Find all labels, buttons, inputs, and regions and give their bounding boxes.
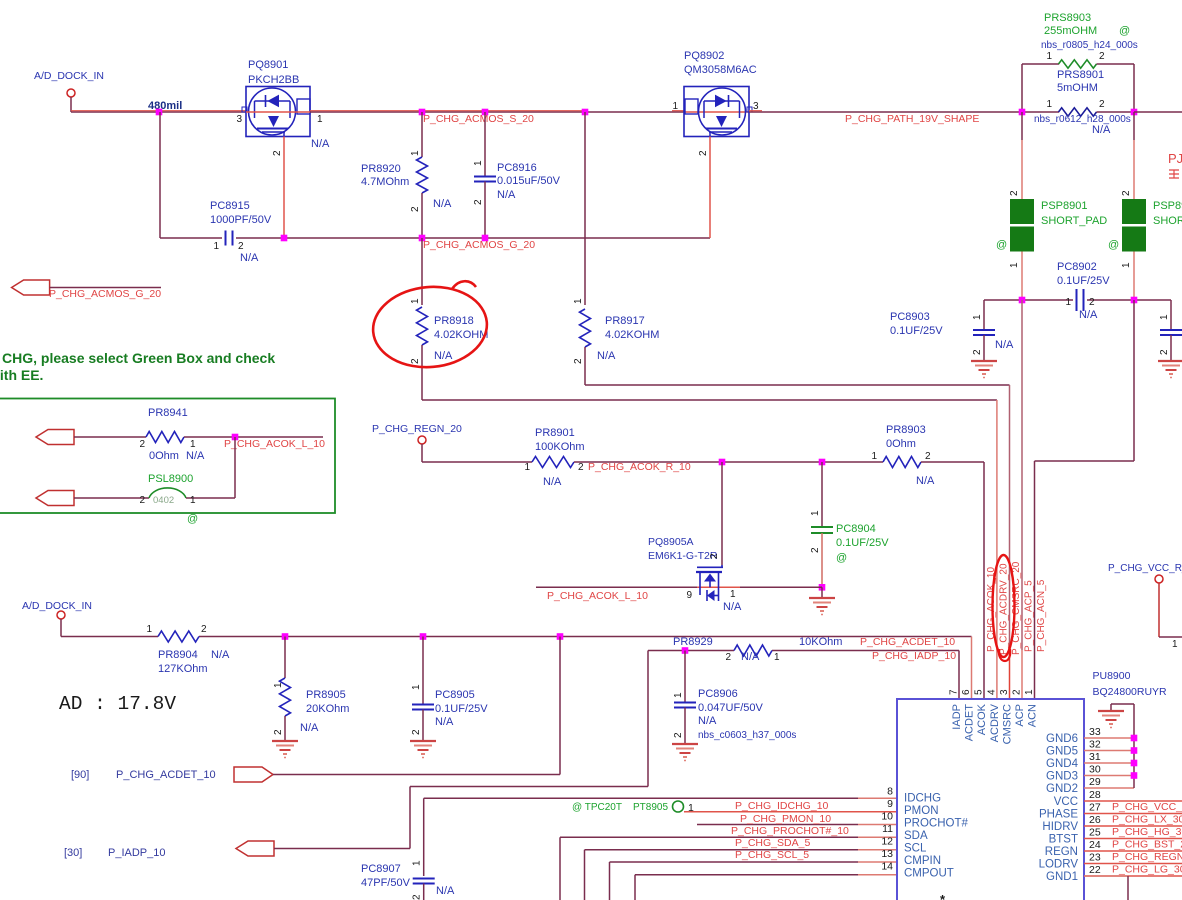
svg-text:IADP: IADP [951, 704, 963, 730]
svg-text:VCC: VCC [1054, 796, 1078, 808]
svg-text:2: 2 [1121, 190, 1132, 196]
resistor PR8904 127KOhm [146, 624, 230, 675]
wire pin14 CMPOUT row [635, 875, 897, 900]
svg-text:PRS8903: PRS8903 [1044, 12, 1091, 24]
resistor PRS8903 255mOHM (green, parallel) [1022, 12, 1138, 112]
svg-text:AD : 17.8V: AD : 17.8V [59, 693, 176, 715]
label P_CHG_ACOK_10 (rotated) [986, 567, 997, 652]
node junction rail x=485 [482, 109, 489, 116]
annotation red circle around PR8918 [370, 281, 491, 372]
node junction GND4 [1131, 760, 1138, 767]
wire GND1 tail [1084, 876, 1128, 900]
wire PSP8901 column lower [1021, 252, 1023, 301]
svg-text:1: 1 [730, 589, 736, 600]
svg-text:A/D_DOCK_IN: A/D_DOCK_IN [22, 600, 92, 612]
svg-text:P_CHG_PROCHOT#_10: P_CHG_PROCHOT#_10 [731, 825, 849, 837]
svg-text:P_CHG_ACMOS_G_20: P_CHG_ACMOS_G_20 [49, 288, 161, 300]
node P_CHG_REGN_20 terminal [372, 423, 462, 444]
node junction PC8902 row x=1134 [1131, 297, 1138, 304]
label P_CHG_ACP_5 (rotated) [1024, 580, 1035, 652]
svg-text:P_CHG_ACP_5: P_CHG_ACP_5 [1024, 580, 1035, 652]
svg-text:BTST: BTST [1049, 834, 1078, 846]
resistor PR8941 0Ohm [74, 407, 325, 462]
svg-text:P_CHG_REGN_: P_CHG_REGN_ [1112, 851, 1182, 863]
capacitor PC8903 0.1UF/25V [890, 300, 1014, 361]
svg-text:[30]: [30] [64, 847, 82, 859]
svg-text:2: 2 [1012, 689, 1023, 695]
svg-text:4: 4 [986, 689, 997, 695]
svg-text:PRS8901: PRS8901 [1057, 69, 1104, 81]
svg-text:PC8905: PC8905 [435, 689, 475, 701]
off-page connector ACDET (right arrow) [234, 767, 273, 782]
svg-text:PQ8905A: PQ8905A [648, 536, 694, 548]
svg-text:P_IADP_10: P_IADP_10 [108, 847, 165, 859]
svg-text:QM3058M6AC: QM3058M6AC [684, 64, 757, 76]
ground PC8903 [971, 361, 997, 378]
off-page connector IADP (left arrow) [236, 841, 274, 856]
wire chip right pin P_CHG_LX_30 [1084, 814, 1182, 827]
svg-text:480mil: 480mil [148, 100, 182, 112]
svg-text:1: 1 [1009, 262, 1020, 268]
wire pin8 IDCHG row [424, 797, 897, 799]
node junction GND5 [1131, 747, 1138, 754]
svg-text:N/A: N/A [186, 450, 205, 462]
label P_CHG_ACOK_L_10 (row) [547, 590, 648, 602]
off-page connector (PSL8900 input) [36, 491, 74, 506]
wire chip right pin P_CHG_LG_30 [1084, 864, 1182, 877]
label chip left pin numbers and names [881, 786, 968, 880]
label P_CHG_PROCHOT#_10 [731, 825, 849, 837]
svg-text:1: 1 [190, 439, 196, 450]
svg-text:PHASE: PHASE [1039, 809, 1078, 821]
svg-text:N/A: N/A [916, 475, 935, 487]
svg-text:PC8907: PC8907 [361, 863, 401, 875]
svg-text:6: 6 [961, 689, 972, 695]
svg-text:10KOhm: 10KOhm [799, 636, 842, 648]
note asterisk mark [940, 892, 946, 900]
wire PC8902 row [984, 300, 1171, 329]
svg-text:HIDRV: HIDRV [1042, 821, 1078, 833]
op-amp U1 : IC PU8900 BQ24800RUYR outline [897, 670, 1167, 900]
label P_CHG_ACOK_R_10 [588, 461, 691, 473]
svg-text:nbs_r0612_h28_000s: nbs_r0612_h28_000s [1034, 114, 1131, 125]
wire ACN column from PC8902 row down [1035, 300, 1135, 699]
svg-text:2: 2 [412, 894, 423, 900]
svg-text:33: 33 [1089, 726, 1101, 738]
wire PSP8902 column upper [1133, 112, 1135, 199]
wire top rail mid segment [310, 111, 684, 112]
svg-text:PR8920: PR8920 [361, 163, 401, 175]
svg-text:3: 3 [236, 114, 242, 125]
svg-text:PMON: PMON [904, 805, 939, 817]
svg-text:2: 2 [725, 652, 731, 663]
component PSP8901 SHORT_PAD [996, 190, 1107, 268]
transistor PQ8901 PKCH2BB [236, 59, 330, 156]
svg-text:2: 2 [810, 547, 821, 553]
svg-text:ACDRV: ACDRV [989, 703, 1001, 742]
wire PR8941 net to PSL8900 [234, 437, 236, 498]
wire rail to right edge [1134, 111, 1182, 113]
svg-text:5mOHM: 5mOHM [1057, 82, 1098, 94]
svg-text:N/A: N/A [1079, 309, 1098, 321]
svg-text:2: 2 [473, 199, 484, 205]
svg-text:PQ8902: PQ8902 [684, 50, 724, 62]
wire GND pins 33-29 to ground rail [1084, 704, 1134, 788]
note green instruction text [0, 350, 275, 383]
svg-text:0.1UF/25V: 0.1UF/25V [890, 325, 943, 337]
svg-text:1: 1 [1159, 314, 1170, 320]
svg-text:1: 1 [213, 241, 219, 252]
svg-text:GND3: GND3 [1046, 771, 1078, 783]
wire through PQ8902 [684, 111, 749, 113]
svg-text:PSP8901: PSP8901 [1041, 200, 1087, 212]
svg-text:1: 1 [1046, 99, 1052, 110]
resistor PR8905 20KOhm [273, 637, 349, 742]
wire PR8917 to CMSRC pin3 [585, 385, 1010, 699]
resistor PR8918 4.02KOHM [410, 238, 488, 400]
transistor PQ8902 QM3058M6AC [672, 50, 759, 156]
svg-text:PC8916: PC8916 [497, 162, 537, 174]
wire pin10 PROCHOT row [697, 824, 897, 826]
svg-text:2: 2 [1099, 99, 1105, 110]
svg-text:1: 1 [190, 495, 196, 506]
svg-text:PJ: PJ [1168, 151, 1182, 166]
ground PR8905 [272, 741, 298, 758]
svg-text:2: 2 [1009, 190, 1020, 196]
svg-text:PC8904: PC8904 [836, 523, 876, 535]
wire IADP branch [274, 651, 648, 849]
svg-text:P_CHG_ACOK_L_10: P_CHG_ACOK_L_10 [547, 590, 648, 602]
green option box [0, 399, 335, 514]
node junction G rail x=485 [482, 235, 489, 242]
wire G rail P_CHG_ACMOS_G_20 [160, 237, 710, 239]
svg-text:1: 1 [810, 510, 821, 516]
svg-text:P_CHG_ACDET_10: P_CHG_ACDET_10 [860, 636, 955, 648]
svg-text:PC8903: PC8903 [890, 311, 930, 323]
svg-text:2: 2 [1089, 297, 1095, 308]
svg-text:N/A: N/A [597, 350, 616, 362]
svg-text:@: @ [1119, 25, 1130, 37]
transistor PQ8905A EM6K1-G-T2R [648, 536, 742, 613]
svg-text:@: @ [996, 239, 1007, 251]
svg-text:P_CHG_IADP_10: P_CHG_IADP_10 [872, 650, 956, 662]
wire through PQ8901 [246, 111, 310, 113]
node junction rail x=422 [419, 109, 426, 116]
svg-text:4.02KOHM: 4.02KOHM [605, 329, 659, 341]
svg-text:GND2: GND2 [1046, 783, 1078, 795]
label P_CHG_ACMOS_S_20 [423, 113, 534, 125]
svg-text:P_CHG_ACDET_10: P_CHG_ACDET_10 [116, 769, 216, 781]
svg-text:N/A: N/A [543, 476, 562, 488]
svg-text:0Ohm: 0Ohm [149, 450, 179, 462]
svg-text:1: 1 [1172, 639, 1178, 650]
svg-text:P_CHG_ACMOS_S_20: P_CHG_ACMOS_S_20 [423, 113, 534, 125]
svg-text:1: 1 [672, 101, 678, 112]
label chip top pin numbers [949, 689, 1036, 695]
svg-text:@ TPC20T: @ TPC20T [572, 802, 622, 813]
svg-text:1: 1 [410, 298, 421, 304]
svg-text:2: 2 [139, 439, 145, 450]
svg-text:2: 2 [272, 150, 283, 156]
svg-text:29: 29 [1089, 776, 1101, 788]
svg-text:28: 28 [1089, 789, 1101, 801]
wire chip right pin P_CHG_HG_30 [1084, 826, 1182, 839]
svg-text:1: 1 [317, 114, 323, 125]
svg-text:PC8902: PC8902 [1057, 261, 1097, 273]
wire chip right pin P_CHG_BST_2 [1084, 839, 1182, 852]
svg-text:ACN: ACN [1027, 704, 1039, 727]
svg-text:22: 22 [1089, 864, 1101, 876]
svg-text:CMSRC: CMSRC [1002, 704, 1014, 744]
svg-text:P_CHG_ACN_5: P_CHG_ACN_5 [1036, 579, 1047, 652]
svg-text:0402: 0402 [153, 495, 174, 506]
capacitor PC8916 0.015uF/50V [473, 112, 561, 238]
svg-text:PU8900: PU8900 [1093, 670, 1131, 682]
wire PQ8905A gate drop [721, 462, 723, 565]
svg-text:P_CHG_ACDRV_20: P_CHG_ACDRV_20 [999, 563, 1010, 655]
svg-text:CMPIN: CMPIN [904, 855, 941, 867]
svg-text:PR8941: PR8941 [148, 407, 188, 419]
svg-text:SHORT_PAD: SHORT_PAD [1153, 215, 1182, 227]
off-page connector P_CHG_ACMOS_G_20 [12, 280, 162, 300]
svg-text:2: 2 [972, 349, 983, 355]
svg-text:P_CHG_LG_30: P_CHG_LG_30 [1112, 864, 1182, 876]
svg-text:0.1UF/25V: 0.1UF/25V [1057, 275, 1110, 287]
svg-text:20KOhm: 20KOhm [306, 703, 349, 715]
label P_CHG_ACDET_10 (net) [860, 636, 955, 648]
svg-text:2: 2 [709, 553, 720, 559]
resistor PR8903 0Ohm [871, 424, 984, 487]
svg-text:14: 14 [881, 861, 893, 873]
label PJ note (clipped chinese) [1168, 151, 1182, 178]
svg-text:2: 2 [573, 358, 584, 364]
svg-text:P_CHG_ACMOS_G_20: P_CHG_ACMOS_G_20 [423, 239, 535, 251]
svg-text:9: 9 [887, 798, 893, 810]
svg-text:ACP: ACP [1014, 704, 1026, 727]
wire pin11 SDA row [560, 837, 897, 900]
port [90] P_CHG_ACDET_10 [71, 769, 216, 781]
wire bottom rail to ACDET pin6 [971, 637, 973, 700]
svg-text:2: 2 [238, 241, 244, 252]
svg-text:2: 2 [139, 495, 145, 506]
label P_CHG_ACMOS_G_20 on rail [423, 239, 535, 251]
node junction bottom rail x=285 [282, 633, 289, 640]
svg-text:12: 12 [881, 836, 893, 848]
svg-text:N/A: N/A [723, 601, 742, 613]
svg-text:N/A: N/A [698, 715, 717, 727]
svg-text:PSP8902: PSP8902 [1153, 200, 1182, 212]
svg-text:P_CHG_VCC_3: P_CHG_VCC_3 [1112, 801, 1182, 813]
label chip right pin numbers and names [1039, 726, 1101, 883]
svg-text:N/A: N/A [433, 198, 452, 210]
svg-text:N/A: N/A [436, 885, 455, 897]
node junction rail x=585 [582, 109, 589, 116]
svg-text:P_CHG_SCL_5: P_CHG_SCL_5 [735, 849, 809, 861]
capacitor PC8905 0.1UF/25V [411, 637, 488, 742]
annotation red ellipse around ACDRV label [993, 555, 1015, 661]
svg-text:5: 5 [974, 689, 985, 695]
label chip top pin names [951, 703, 1039, 744]
svg-text:0.047UF/50V: 0.047UF/50V [698, 702, 763, 714]
wire chip right pin P_CHG_REGN_ [1084, 851, 1182, 864]
svg-text:PR8929: PR8929 [673, 636, 713, 648]
svg-text:8: 8 [887, 786, 893, 798]
node junction PC8902 row x=1022 [1019, 297, 1026, 304]
svg-text:GND5: GND5 [1046, 746, 1078, 758]
svg-text:BQ24800RUYR: BQ24800RUYR [1093, 686, 1168, 698]
wire PR8929 row [648, 651, 959, 700]
svg-text:A/D_DOCK_IN: A/D_DOCK_IN [34, 70, 104, 82]
svg-text:7: 7 [949, 689, 960, 695]
resistor PRS8901 5mOHM (inline) [1034, 69, 1134, 136]
node junction ACOK x=722 [719, 459, 726, 466]
svg-text:PR8903: PR8903 [886, 424, 926, 436]
svg-text:13: 13 [881, 848, 893, 860]
svg-text:P_CHG_BST_2: P_CHG_BST_2 [1112, 839, 1182, 851]
svg-text:2: 2 [925, 451, 931, 462]
svg-text:4.02KOHM: 4.02KOHM [434, 329, 488, 341]
svg-text:1: 1 [273, 682, 284, 688]
capacitor C-right 0.1UF (clipped) [1159, 314, 1182, 361]
svg-text:2: 2 [578, 462, 584, 473]
label P_CHG_CMSRC_20 (rotated) [1011, 561, 1022, 655]
resistor PR8917 4.02KOHM [573, 112, 659, 385]
svg-text:1: 1 [871, 451, 877, 462]
svg-text:SHORT_PAD: SHORT_PAD [1041, 215, 1107, 227]
svg-text:[90]: [90] [71, 769, 89, 781]
svg-text:P_CHG_PMON_10: P_CHG_PMON_10 [740, 813, 831, 825]
node P_CHG_VCC_R_3 terminal [1108, 563, 1182, 583]
svg-text:1: 1 [1046, 51, 1052, 62]
node junction G rail x=284 [281, 235, 288, 242]
svg-text:P_CHG_HG_30: P_CHG_HG_30 [1112, 826, 1182, 838]
ground C-right [1158, 361, 1182, 378]
test point PT8905 TPC20T [572, 801, 694, 814]
svg-text:N/A: N/A [435, 716, 454, 728]
svg-text:N/A: N/A [211, 649, 230, 661]
svg-text:2: 2 [410, 206, 421, 212]
svg-text:PKCH2BB: PKCH2BB [248, 74, 299, 86]
svg-text:100KOhm: 100KOhm [535, 441, 585, 453]
capacitor PC8915 1000PF/50V [210, 200, 272, 264]
svg-text:GND1: GND1 [1046, 871, 1078, 883]
node A/D_DOCK_IN (bottom terminal) [22, 600, 92, 619]
wire bottom rail [61, 619, 972, 637]
label 480mil [148, 100, 182, 112]
label P_CHG_SDA_5 [735, 837, 810, 849]
svg-text:N/A: N/A [741, 651, 760, 663]
svg-text:1: 1 [412, 860, 423, 866]
wire PQ8901 pin2 drop (highlighted) [283, 137, 285, 239]
svg-text:PR8918: PR8918 [434, 315, 474, 327]
svg-text:0.1UF/25V: 0.1UF/25V [836, 537, 889, 549]
node A/D_DOCK_IN (top terminal) [34, 70, 104, 97]
label P_CHG_SCL_5 [735, 849, 809, 861]
wire REGN to PR8901 [422, 444, 532, 462]
svg-text:ACOK: ACOK [976, 703, 988, 735]
wire ACOK to pin5 [983, 462, 985, 699]
svg-text:1: 1 [1065, 297, 1071, 308]
svg-text:1: 1 [1121, 262, 1132, 268]
svg-text:2: 2 [1159, 349, 1170, 355]
ground PQ8905A source [809, 587, 835, 614]
svg-text:27: 27 [1089, 802, 1101, 814]
svg-text:30: 30 [1089, 764, 1101, 776]
svg-text:@: @ [836, 552, 847, 564]
wire ACP column x=1022 [1021, 300, 1023, 699]
svg-text:1: 1 [410, 150, 421, 156]
inductor PSL8900 0402 [74, 473, 235, 525]
ground PC8906 [672, 744, 698, 761]
svg-text:PSL8900: PSL8900 [148, 473, 193, 485]
svg-text:P_CHG_IDCHG_10: P_CHG_IDCHG_10 [735, 800, 829, 812]
wire VCC_R [1159, 583, 1182, 650]
wire ACDET branch [273, 637, 560, 775]
svg-text:N/A: N/A [240, 252, 259, 264]
resistor PR8929 10KOhm [673, 636, 842, 663]
capacitor PC8902 0.1UF/25V [1057, 261, 1110, 321]
label P_CHG_PATH_19V_SHAPE [845, 113, 979, 125]
resistor PR8920 4.7MOhm [361, 112, 452, 238]
svg-text:1000PF/50V: 1000PF/50V [210, 214, 272, 226]
svg-text:P_CHG_REGN_20: P_CHG_REGN_20 [372, 423, 462, 435]
svg-text:2: 2 [673, 732, 684, 738]
svg-text:0.1UF/25V: 0.1UF/25V [435, 703, 488, 715]
svg-text:4.7MOhm: 4.7MOhm [361, 176, 409, 188]
svg-text:N/A: N/A [995, 339, 1014, 351]
svg-text:2: 2 [201, 624, 207, 635]
node junction ACOK x=822 [819, 459, 826, 466]
svg-text:1: 1 [1024, 689, 1035, 695]
svg-text:PC8906: PC8906 [698, 688, 738, 700]
node junction rail x=1022 [1019, 109, 1026, 116]
node junction bottom rail x=560 [557, 633, 564, 640]
svg-text:P_CHG_ACOK_R_10: P_CHG_ACOK_R_10 [588, 461, 691, 473]
svg-text:GND4: GND4 [1046, 758, 1079, 770]
svg-text:1: 1 [146, 624, 152, 635]
svg-text:N/A: N/A [300, 722, 319, 734]
node junction 480mil [156, 109, 163, 116]
node junction PC8906 [682, 647, 689, 654]
svg-text:0.015uF/50V: 0.015uF/50V [497, 175, 561, 187]
svg-text:10: 10 [881, 811, 893, 823]
wire pin12 SCL row [585, 850, 898, 900]
wire ACOK_L row [536, 586, 822, 588]
svg-text:PC8915: PC8915 [210, 200, 250, 212]
wire chip right pin P_CHG_VCC_3 [1084, 801, 1182, 814]
wire top rail left segment (highlighted) [71, 111, 246, 112]
svg-text:23: 23 [1089, 852, 1101, 864]
svg-text:@: @ [187, 513, 198, 525]
svg-text:SCL: SCL [904, 843, 927, 855]
svg-text:24: 24 [1089, 839, 1101, 851]
wire PQ8902 pin2 drop (highlighted) [709, 137, 711, 239]
svg-text:1: 1 [573, 298, 584, 304]
component PSP8902 SHORT_PAD [1108, 190, 1182, 268]
svg-text:127KOhm: 127KOhm [158, 663, 208, 675]
svg-text:1: 1 [972, 314, 983, 320]
svg-text:1: 1 [774, 652, 780, 663]
resistor PR8901 100KOhm [524, 427, 584, 488]
svg-text:32: 32 [1089, 739, 1101, 751]
svg-text:3: 3 [999, 689, 1010, 695]
svg-text:25: 25 [1089, 827, 1101, 839]
svg-text:P_CHG_ACOK_L_10: P_CHG_ACOK_L_10 [224, 438, 325, 450]
wire PR8918 to ACDRV pin4 [422, 400, 997, 699]
svg-text:EM6K1-G-T2R: EM6K1-G-T2R [648, 550, 718, 562]
wire pin9 PMON row [684, 811, 897, 813]
label P_CHG_IDCHG_10 [735, 800, 829, 812]
